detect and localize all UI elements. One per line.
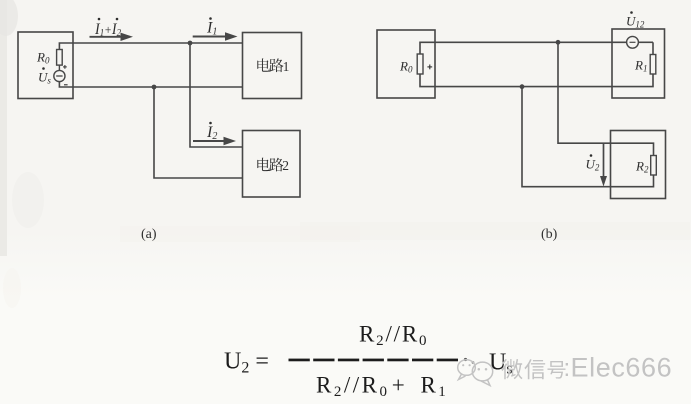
voltage source Us circle: [54, 70, 65, 81]
current arrow I1: [193, 36, 227, 38]
resistor R2: [651, 156, 657, 176]
watermark wechat icon: [458, 360, 493, 386]
terminal circle U12: [627, 36, 639, 48]
wire node B down to circuit2 bottom feed: [154, 87, 243, 178]
svg-text::: :: [564, 355, 571, 382]
wire from Us bottom down and right (bottom rail a): [59, 82, 242, 87]
box R1 network: [612, 29, 665, 98]
resistor R0 (b): [417, 54, 423, 74]
box circuit2 (dianlu 2): [243, 131, 301, 198]
node C (top junction b): [556, 40, 561, 45]
node D (bottom junction b): [520, 84, 525, 89]
node A (top junction): [188, 41, 193, 46]
voltage arrow U2 (downward): [603, 143, 605, 178]
node B (bottom junction): [152, 85, 157, 90]
svg-text:Elec666: Elec666: [571, 353, 673, 383]
polarity + (b): [427, 66, 432, 68]
text 电路2: [257, 158, 270, 171]
resistor R1: [650, 55, 656, 75]
wire node C down to R2 top feed: [558, 42, 654, 155]
wire from R0 top up and right (top rail a): [59, 43, 242, 50]
polarity - of Us: [64, 84, 68, 86]
source box (a) Thevenin equivalent: [18, 32, 73, 99]
watermark text 微信号: Elec666: [501, 359, 522, 379]
svg-text:R2//R0: R2//R0: [359, 322, 428, 350]
box R2 network: [611, 131, 666, 199]
source box (b): [377, 30, 435, 98]
wire node A down to circuit2 top feed: [190, 43, 243, 147]
resistor R0: [57, 50, 63, 66]
box circuit1 (dianlu 1): [243, 33, 302, 99]
text 电路1: [257, 58, 270, 71]
top rail (b): R0 top to R1 via U12 circle: [420, 42, 627, 54]
polarity + of Us: [63, 66, 67, 68]
wire R2 bottom back to node D: [522, 87, 654, 187]
svg-text:(a): (a): [141, 227, 157, 242]
bottom rail (b): R0 bottom to R1 bottom: [420, 74, 653, 87]
current arrow I2: [193, 140, 226, 142]
svg-text:(b): (b): [541, 227, 558, 242]
svg-text:2: 2: [282, 158, 289, 173]
current arrow I1+I2: [90, 36, 123, 38]
wire resistor R0 to source Us: [58, 65, 60, 70]
fraction bar (dashes): [289, 359, 310, 362]
svg-text:1: 1: [283, 59, 290, 74]
